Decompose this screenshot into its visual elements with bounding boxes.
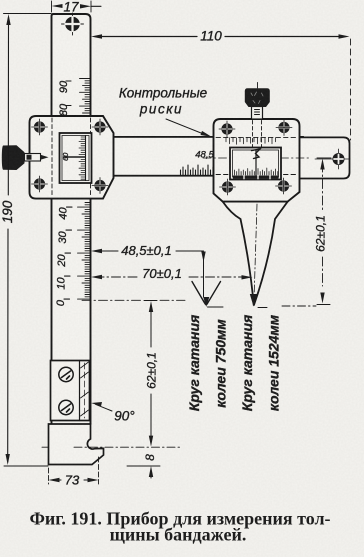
control mark ticks on arm — [181, 165, 219, 175]
axis centerline through right slider — [203, 157, 310, 159]
end plate screw — [333, 153, 345, 165]
beam top screw — [62, 13, 84, 35]
right slider measuring cone — [223, 202, 288, 306]
right slider body — [214, 119, 300, 202]
dim 190 extension lines — [4, 14, 52, 467]
measuring plane dash-dot line — [42, 446, 180, 448]
dim 62 right: ticks, dash-dot line, arrows — [317, 158, 331, 305]
dim 48,5 extension to small cone — [203, 252, 205, 297]
beam lower scale ticks — [64, 203, 91, 300]
dim 8: bottom arrow and foot-plane extension — [150, 470, 152, 478]
window interior: partition, ticks, dark band — [255, 150, 257, 177]
leader line for control marks — [166, 119, 206, 135]
zero-level dash-dot line — [82, 299, 185, 301]
hidden beam edges in left slider (dashed) — [52, 118, 91, 197]
block screw 1 — [59, 367, 73, 381]
end plate screw centerlines — [315, 149, 350, 169]
dim 48,5 line — [95, 250, 204, 252]
arm right end plate — [299, 137, 350, 178]
cone dark tip — [250, 294, 258, 307]
knob stem hidden lines — [253, 121, 262, 148]
dim 110 dashed extension line — [350, 39, 352, 140]
horizontal arm — [113, 137, 303, 176]
dim 110 line — [95, 36, 345, 38]
knob stem — [252, 107, 263, 120]
dim 70 dash-dot line — [95, 276, 248, 278]
dim 190 arrows — [5, 14, 10, 465]
leader line for 90 degrees — [96, 404, 113, 411]
dim 62 left: ticks, line, arrows — [144, 300, 157, 302]
hidden control marks in right slider — [226, 138, 276, 145]
vertical beam (ruler bar) — [52, 14, 91, 424]
knurled knob — [245, 88, 270, 107]
clamp block — [51, 361, 90, 421]
dim 17 extension lines — [52, 1, 92, 12]
knob centerline — [257, 83, 259, 89]
right slider window — [230, 148, 281, 180]
dim 110 arrows — [91, 34, 350, 38]
dim 73: extensions, line, arrows — [49, 457, 99, 484]
window scale (beam seen through) — [79, 136, 86, 181]
cone tip level dash-dot — [282, 305, 316, 307]
beam upper scale ticks — [66, 79, 91, 114]
right slider screws — [219, 120, 292, 196]
thumb screw stem — [25, 154, 41, 162]
tip level ticks — [208, 306, 268, 309]
slider index line — [64, 156, 86, 158]
small cone (alternative tip position 750mm) — [192, 282, 221, 305]
hidden arm edges in right slider (dashed) — [216, 137, 298, 174]
dim 17 arrows — [52, 4, 92, 9]
foot — [49, 424, 104, 465]
thumb screw knob — [2, 145, 25, 170]
left slider window — [60, 133, 92, 183]
cone centerline — [254, 204, 257, 300]
mark 70 in window — [252, 149, 261, 159]
dim 190 line — [7, 17, 10, 462]
block screw 2 — [59, 400, 73, 414]
left slider screws — [32, 119, 109, 194]
left slider body — [30, 116, 114, 199]
